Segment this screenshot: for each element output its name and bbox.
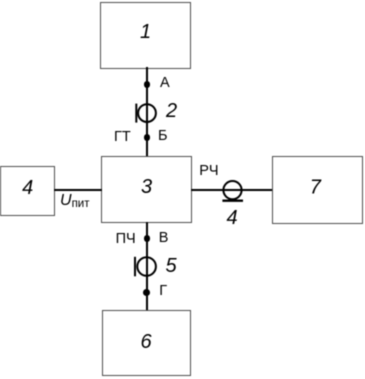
label Uпит xyxy=(60,193,89,211)
node Б xyxy=(144,134,151,141)
label 5 xyxy=(166,256,177,276)
label Б xyxy=(158,129,168,144)
wire block1 to block3 xyxy=(146,67,149,157)
node В xyxy=(144,235,151,242)
converter 2 symbol xyxy=(134,102,158,124)
block 6 xyxy=(102,310,191,376)
label А xyxy=(160,76,170,91)
wire Uпит block4 to block3 xyxy=(54,189,102,191)
converter 5 symbol xyxy=(133,255,158,278)
label Г xyxy=(159,284,167,299)
wire block3 to block6 xyxy=(146,222,149,311)
block 4 left xyxy=(0,166,55,216)
label ГТ xyxy=(114,130,131,145)
block 3 xyxy=(101,156,192,223)
label В xyxy=(159,231,169,246)
label РЧ xyxy=(199,164,218,179)
label ПЧ xyxy=(116,232,136,247)
node Г xyxy=(143,289,150,296)
attenuator 4 symbol xyxy=(221,179,244,203)
wire block3 to block7 xyxy=(191,189,273,191)
block 7 xyxy=(272,156,363,224)
label 2 xyxy=(166,101,177,121)
block 1 xyxy=(100,2,191,69)
node А xyxy=(144,81,151,88)
label 4 xyxy=(227,208,238,228)
